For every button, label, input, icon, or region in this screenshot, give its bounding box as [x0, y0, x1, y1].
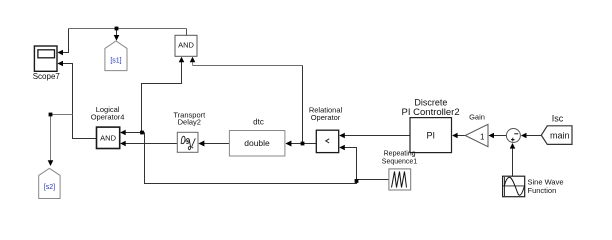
wire: Sum output to Gain input	[490, 135, 507, 137]
wire: dtc output to Transport Delay2 input	[204, 143, 229, 145]
data type conversion dtc	[229, 118, 285, 157]
arrowhead into dtc input	[285, 141, 291, 147]
arrowhead into Logical Operator4 input 1	[120, 130, 126, 136]
arrowhead into Sum bottom input	[510, 143, 516, 149]
svg-text:Operator4: Operator4	[91, 113, 125, 122]
gain Gain	[465, 113, 488, 147]
arrowhead into Relational Operator input 2	[339, 145, 345, 151]
svg-text:[s1]: [s1]	[110, 58, 121, 65]
svg-text:Repeating: Repeating	[384, 150, 416, 157]
svg-text:PI: PI	[426, 131, 435, 141]
arrowhead into [s2]	[48, 160, 54, 166]
wire: jog down and long bottom run left	[145, 133, 357, 184]
svg-text:double: double	[244, 138, 270, 148]
svg-text:Function: Function	[528, 186, 557, 195]
repeating sequence Repeating Sequence1	[382, 150, 418, 190]
wire: Sine Wave Function output up to Sum bottom input	[512, 148, 514, 176]
from tag Isc (main)	[541, 114, 572, 145]
arrowhead into Sum right input	[521, 133, 527, 139]
transport delay Transport Delay2	[173, 111, 206, 153]
wire: branch down into goto tag [s1]	[116, 29, 118, 36]
sine wave source Sine Wave Function	[503, 176, 564, 197]
wire: Relational Operator output to dtc input	[287, 143, 316, 145]
wire: branch left and down to from tag [s2]	[51, 115, 73, 161]
arrowhead into [s1]	[114, 35, 120, 41]
arrowhead into Gain input	[488, 133, 494, 139]
svg-text:main: main	[550, 130, 570, 140]
wire: Transport Delay2 output to Logical Operator4 input 2	[121, 143, 177, 145]
junction node on top wire above [s1]	[115, 27, 119, 31]
junction node on Relational output wire	[301, 142, 305, 146]
wire: Isc tag output to Sum right input	[522, 135, 541, 137]
wire: riser up to Relational Operator input 2	[340, 148, 357, 182]
PI controller Discrete PI Controller2	[402, 98, 460, 153]
svg-text:dtc: dtc	[253, 118, 264, 127]
goto tag [s1]	[105, 41, 127, 71]
sum block	[506, 129, 520, 143]
arrowhead into PI input	[452, 133, 458, 139]
svg-text:AND: AND	[178, 40, 194, 49]
arrowhead into Scope7 input 1	[57, 50, 63, 56]
svg-text:PI Controller2: PI Controller2	[402, 107, 460, 118]
svg-text:Isc: Isc	[552, 114, 564, 124]
arrowhead into Relational Operator input 1	[339, 133, 345, 139]
arrowhead into Transport Delay2 input	[198, 141, 204, 147]
wire: up to AND1 input 1	[142, 60, 182, 133]
wire: from Repeating Sequence1 output going left	[357, 179, 389, 181]
wire: Logical Operator4 output left then up to Scope7 input 2	[61, 64, 97, 139]
logical operator Logical Operator4	[91, 105, 125, 149]
arrowhead into Scope7 input 2	[57, 61, 63, 67]
arrowhead into Logical Operator4 input 2	[120, 141, 126, 147]
junction node at Repeating Sequence branch	[355, 179, 359, 183]
svg-text:Sequence1: Sequence1	[382, 158, 418, 165]
svg-text:1: 1	[480, 133, 485, 142]
wire: Gain output to PI input	[453, 135, 465, 137]
svg-text:Operator: Operator	[311, 113, 341, 122]
relational operator Relational Operator	[309, 106, 343, 153]
svg-text:Discrete: Discrete	[414, 98, 447, 108]
wire: branch into Logical Operator4 input 1	[121, 132, 145, 134]
arrowhead into AND1 input 1	[179, 57, 185, 63]
arrowhead into AND1 input 2	[190, 57, 196, 63]
wire: PI output to Relational Operator input 1	[340, 135, 410, 137]
svg-text:[s2]: [s2]	[44, 184, 55, 191]
junction node at Logical Operator4 branch	[140, 131, 144, 135]
logical operator AND1 (top)	[175, 35, 197, 56]
wire: AND1 output up then left to Scope7 input 1	[186, 29, 188, 36]
scope Scope7	[33, 46, 61, 81]
from tag [s2]	[39, 168, 60, 198]
svg-text:AND: AND	[100, 133, 116, 142]
svg-text:Scope7: Scope7	[33, 72, 61, 81]
junction node at [s2] branch corner	[49, 113, 53, 117]
svg-text:Delay2: Delay2	[178, 118, 201, 127]
svg-text:Gain: Gain	[469, 113, 485, 122]
wire: AND1 input 2 from Relational Operator output branch	[192, 60, 194, 66]
